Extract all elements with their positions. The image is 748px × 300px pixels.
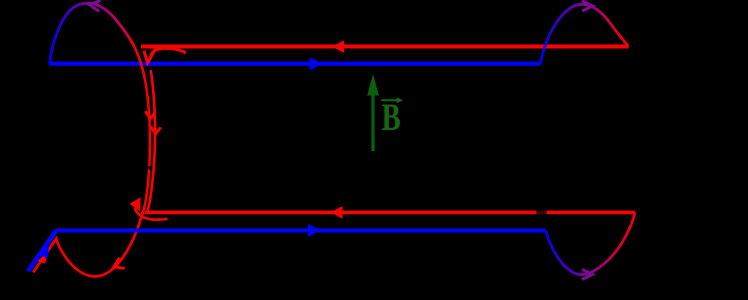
arrowhead on red feed tail (solid, pointing down-left) [37, 253, 48, 264]
curl hook around top blue wire [151, 49, 186, 56]
bump at right end of top curl [184, 51, 186, 55]
arrowhead on dip (open V, pointing down-left) [114, 258, 125, 269]
dark segment marker on bottom red conductor [537, 210, 547, 214]
arrowhead on bottom blue conductor (pointing right) [308, 224, 321, 237]
arrowhead on strand A (open V, pointing down) [145, 111, 155, 119]
arrowhead at top-left arc apex (open V, pointing left) [89, 1, 100, 12]
arrowhead on strand B (open V, pointing down) [151, 127, 161, 135]
arrowhead of top hook (open V, pointing down at blue wire) [144, 49, 156, 63]
label B with vector arrow [381, 96, 403, 139]
notch in strand A [148, 166, 152, 169]
wire: top red conductor [141, 45, 629, 49]
field line: bottom-left dip and exit tail [33, 212, 143, 277]
arrowhead of bottom hook (solid, pointing left) [130, 197, 141, 211]
arrowhead on blue feed diagonal (solid, pointing up-right) [38, 247, 49, 259]
arrowhead at top-right arc apex (open V, pointing right) [582, 1, 593, 11]
wire: bottom-right end arc (gradient blue-purple-red, bowing down) [546, 212, 635, 274]
curl hook around bottom red wire [135, 208, 168, 220]
wire: bottom red conductor [145, 211, 635, 215]
arrowhead on top blue conductor (current, pointing right) [310, 57, 323, 70]
wire: top blue conductor [50, 62, 541, 66]
wire: bottom blue conductor with feed bend [28, 230, 56, 271]
B field arrow (green, pointing up) [371, 93, 374, 151]
field line: right descending strand B [148, 70, 156, 211]
arrowhead on bottom red conductor (pointing left) [331, 206, 343, 219]
arrowhead at bottom-right arc apex (open V, pointing right) [582, 269, 593, 279]
wire: top-left end arc (gradient blue-purple-crimson) [50, 3, 132, 64]
wire: top-right end arc (gradient blue-purple-red) [541, 4, 629, 63]
field line: left descending strand A (from top-left arc) [129, 38, 150, 216]
arrowhead on top red conductor (current, pointing left) [332, 40, 344, 53]
